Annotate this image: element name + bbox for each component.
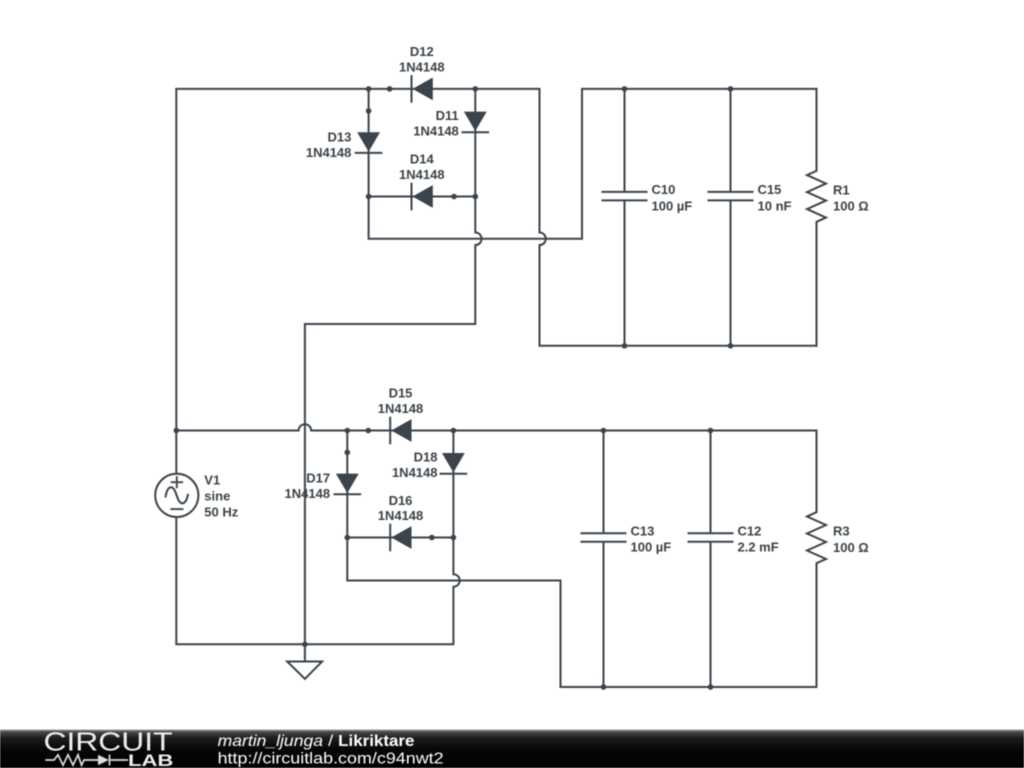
svg-text:http://circuitlab.com/c94nwt2: http://circuitlab.com/c94nwt2	[218, 751, 444, 768]
svg-text:martin_ljunga / Likriktare: martin_ljunga / Likriktare	[218, 733, 415, 750]
svg-text:100 µF: 100 µF	[652, 198, 693, 213]
svg-text:D18: D18	[414, 449, 438, 464]
svg-text:D17: D17	[306, 471, 330, 486]
svg-text:100 Ω: 100 Ω	[833, 199, 869, 214]
svg-text:1N4148: 1N4148	[399, 59, 445, 74]
svg-text:D13: D13	[328, 129, 352, 144]
svg-text:D14: D14	[410, 152, 435, 167]
svg-text:50 Hz: 50 Hz	[204, 505, 238, 520]
svg-text:10 nF: 10 nF	[758, 198, 792, 213]
svg-text:sine: sine	[204, 489, 230, 504]
svg-text:D12: D12	[410, 44, 434, 59]
svg-text:1N4148: 1N4148	[392, 465, 438, 480]
svg-text:2.2 mF: 2.2 mF	[738, 540, 779, 555]
svg-text:LAB: LAB	[128, 751, 173, 768]
svg-text:C12: C12	[738, 523, 762, 538]
svg-text:1N4148: 1N4148	[285, 486, 331, 501]
svg-text:C15: C15	[758, 182, 782, 197]
svg-text:D15: D15	[389, 386, 413, 401]
svg-text:R1: R1	[833, 182, 850, 197]
svg-text:C10: C10	[652, 182, 676, 197]
svg-text:1N4148: 1N4148	[413, 124, 459, 139]
svg-text:1N4148: 1N4148	[378, 401, 424, 416]
svg-text:D16: D16	[389, 493, 413, 508]
svg-text:1N4148: 1N4148	[378, 508, 424, 523]
svg-text:C13: C13	[631, 523, 655, 538]
svg-text:1N4148: 1N4148	[399, 167, 445, 182]
svg-text:D11: D11	[436, 108, 459, 123]
svg-text:R3: R3	[833, 524, 850, 539]
svg-text:V1: V1	[204, 473, 220, 488]
svg-text:1N4148: 1N4148	[306, 145, 352, 160]
svg-text:100 Ω: 100 Ω	[833, 540, 869, 555]
svg-text:100 µF: 100 µF	[631, 540, 672, 555]
